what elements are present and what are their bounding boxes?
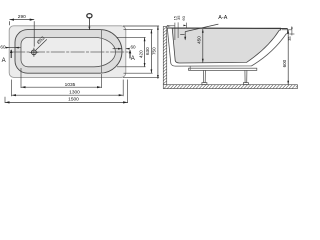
svg-text:1035: 1035 <box>65 82 76 88</box>
dim 750 (vertical right) <box>152 26 159 79</box>
tub outer rim (plan) <box>9 26 126 78</box>
dim 290 (top-left) <box>10 14 35 46</box>
svg-text:60: 60 <box>181 15 186 20</box>
svg-text:1500: 1500 <box>68 97 79 103</box>
dim 1500 <box>5 97 128 104</box>
overflow marker (top rim) <box>87 14 92 30</box>
section marker A (left) <box>2 49 13 64</box>
drain pipe mark <box>189 66 191 70</box>
bottom flat-end line <box>101 30 103 73</box>
tub inner rim (plan) <box>15 30 122 74</box>
svg-text:750: 750 <box>152 47 157 55</box>
bottom extension lines <box>5 68 128 103</box>
svg-text:60: 60 <box>0 44 6 49</box>
tub interior (gray) <box>172 28 280 63</box>
support leg right <box>243 70 248 84</box>
overflow leader (section) <box>180 24 218 40</box>
svg-text:630: 630 <box>145 47 150 55</box>
tub bottom (plan) <box>21 37 116 66</box>
svg-text:35: 35 <box>288 36 292 40</box>
svg-text:A: A <box>131 56 135 62</box>
support leg left <box>202 70 207 84</box>
svg-text:420: 420 <box>139 50 144 58</box>
wall (hatched, left of section) <box>163 27 166 85</box>
drain leader <box>36 35 47 50</box>
dim 1300 <box>12 90 124 97</box>
dim 450 (inner depth) <box>197 29 204 63</box>
dim 600 (right height) <box>282 30 292 85</box>
dim 60 (left rim width) <box>0 44 20 49</box>
drain symbol <box>29 48 38 57</box>
svg-text:450: 450 <box>197 36 202 44</box>
section cut line A-A (plan centerline) <box>11 51 130 53</box>
dim 35 (rim height right) <box>288 26 294 41</box>
support rail <box>189 68 257 70</box>
svg-text:A-A: A-A <box>218 15 227 21</box>
dim 1035 <box>21 82 102 88</box>
svg-text:1300: 1300 <box>69 90 80 96</box>
dim 630 (vertical right) <box>145 30 152 74</box>
floor (hatched) <box>163 85 297 89</box>
svg-text:A: A <box>2 58 6 64</box>
svg-text:290: 290 <box>18 14 26 20</box>
section title A-A <box>218 15 227 21</box>
svg-text:600: 600 <box>282 59 287 67</box>
rim top line <box>167 27 287 30</box>
dim 60 (right rim) <box>113 44 136 49</box>
svg-text:60: 60 <box>131 44 137 49</box>
section marker A (right) <box>129 50 135 63</box>
right extension lines <box>117 26 159 78</box>
tub shell (section outer profile) <box>167 28 287 66</box>
dim 430 (vertical right) <box>139 37 146 66</box>
tiny rim dims (top-left of section) <box>167 15 187 40</box>
